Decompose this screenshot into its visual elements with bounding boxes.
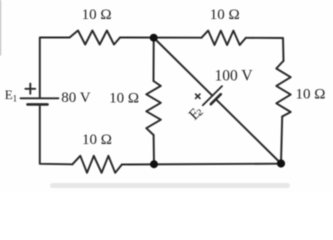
svg-text:10 Ω: 10 Ω: [109, 91, 139, 107]
svg-text:10 Ω: 10 Ω: [82, 7, 112, 23]
svg-text:E2: E2: [186, 103, 206, 123]
svg-text:80 V: 80 V: [61, 90, 90, 106]
svg-text:10 Ω: 10 Ω: [210, 7, 240, 23]
svg-text:E1: E1: [5, 87, 17, 104]
svg-text:10 Ω: 10 Ω: [295, 87, 325, 103]
svg-text:10 Ω: 10 Ω: [82, 132, 112, 148]
svg-text:100 V: 100 V: [215, 67, 254, 84]
